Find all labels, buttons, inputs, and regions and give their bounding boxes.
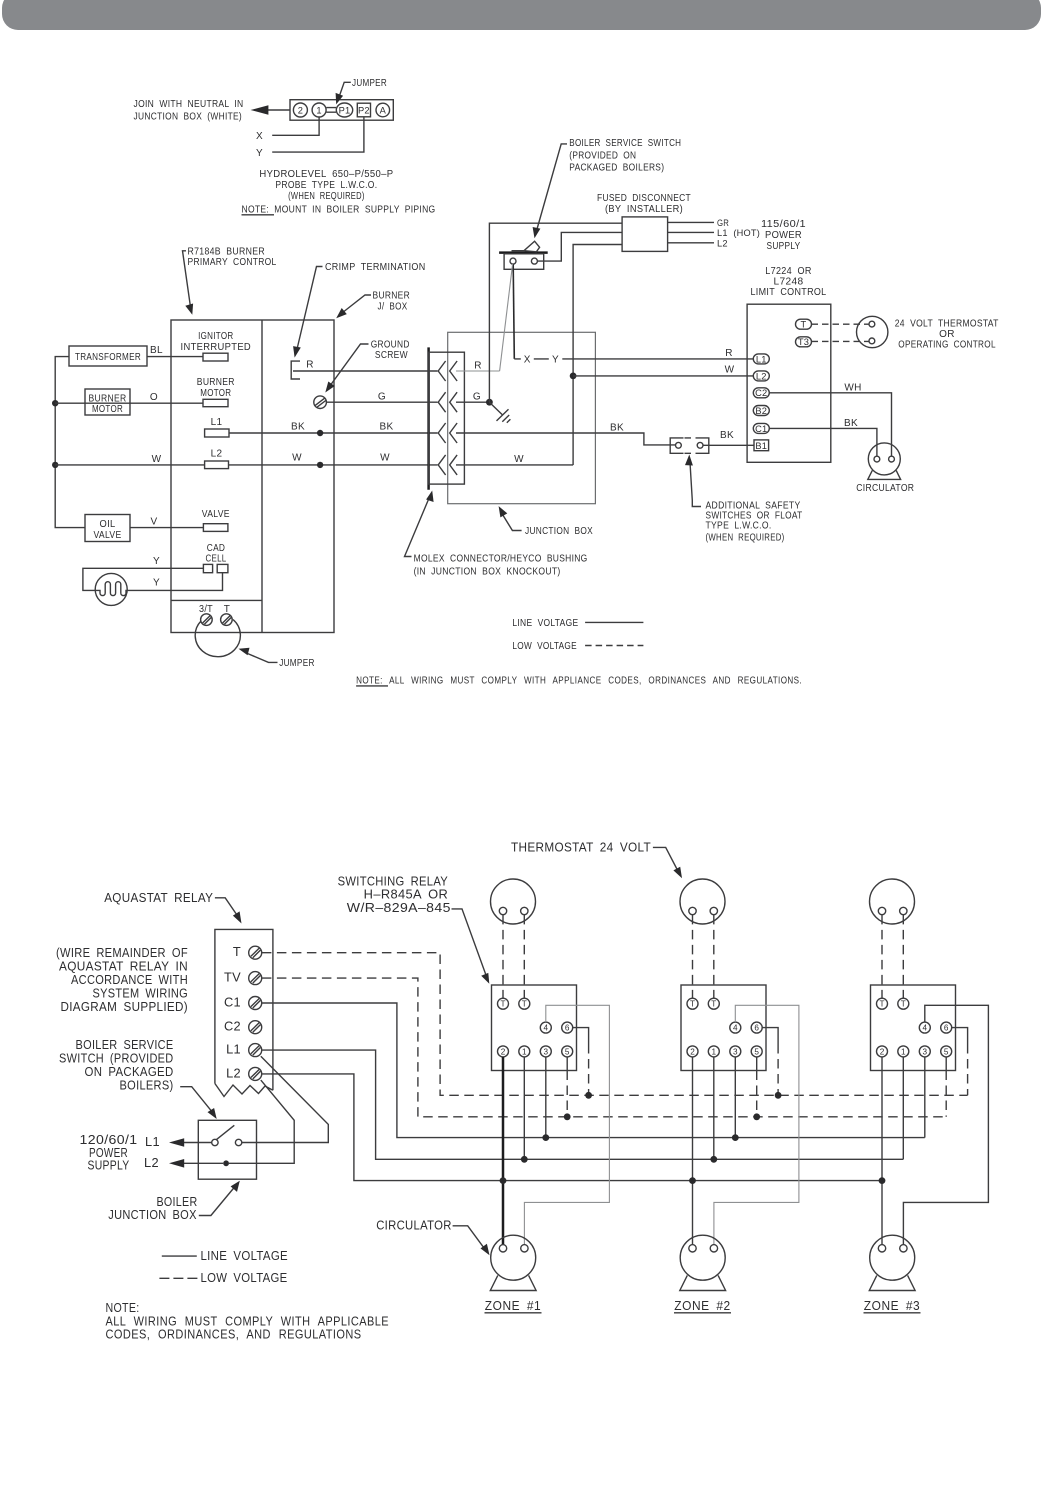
cad cell contact right [217, 564, 228, 572]
wire relay3-5 [945, 1057, 947, 1071]
control / j-box divider [261, 320, 263, 633]
leader to aquastat relay [215, 898, 237, 916]
svg-text:C2: C2 [224, 1019, 241, 1034]
svg-text:L2: L2 [717, 238, 728, 248]
svg-text:MOTOR: MOTOR [200, 388, 231, 399]
svg-text:W: W [152, 454, 162, 465]
svg-text:POWER: POWER [765, 230, 802, 241]
leader to service switch [537, 144, 567, 231]
leader to circulator [453, 1226, 485, 1250]
svg-text:1: 1 [316, 105, 321, 115]
leader ADDITIONAL SAFETY [690, 459, 701, 507]
svg-text:(WHEN REQUIRED): (WHEN REQUIRED) [288, 191, 365, 202]
svg-text:Y: Y [256, 148, 263, 159]
switch blade [216, 1125, 234, 1139]
svg-text:(WHEN REQUIRED): (WHEN REQUIRED) [706, 533, 785, 544]
chassis ground symbol [497, 409, 511, 423]
svg-text:2: 2 [298, 105, 303, 115]
svg-text:W: W [514, 454, 524, 465]
ground screw [314, 396, 327, 409]
svg-text:WH: WH [844, 383, 861, 394]
wire W from supply to L2 and molex [55, 464, 437, 466]
svg-text:LIMIT CONTROL: LIMIT CONTROL [751, 287, 827, 298]
svg-text:BK: BK [844, 418, 858, 429]
thermostat zone 3 [870, 879, 915, 924]
svg-text:SUPPLY: SUPPLY [88, 1158, 130, 1173]
wire R slant to switch (grey) [500, 264, 513, 371]
wire Y lower [127, 573, 223, 591]
thermostat terminal upper [869, 321, 875, 327]
boiler junction box [198, 1120, 256, 1179]
svg-text:TRANSFORMER: TRANSFORMER [75, 352, 141, 363]
svg-text:B2: B2 [755, 406, 767, 416]
terminal L1 [753, 354, 769, 364]
svg-text:DIAGRAM SUPPLIED): DIAGRAM SUPPLIED) [61, 999, 189, 1014]
wire relay3-1 [902, 1057, 904, 1159]
svg-text:L1 (HOT): L1 (HOT) [717, 228, 760, 238]
terminal T3 [796, 337, 812, 347]
svg-text:SCREW: SCREW [375, 350, 408, 361]
wire switch to fused disconnect L1 [537, 232, 622, 261]
wire L2 supply [176, 1162, 223, 1164]
wire C1 bus [262, 1003, 925, 1138]
svg-text:PRIMARY CONTROL: PRIMARY CONTROL [188, 257, 277, 268]
svg-text:THERMOSTAT 24 VOLT: THERMOSTAT 24 VOLT [511, 839, 651, 854]
wire O burner motor [55, 402, 203, 404]
junction box [448, 332, 596, 503]
svg-text:115/60/1: 115/60/1 [761, 219, 806, 230]
L2 contact [205, 461, 229, 469]
switch blade [512, 241, 540, 252]
svg-text:LINE VOLTAGE: LINE VOLTAGE [201, 1248, 289, 1263]
svg-text:CELL: CELL [206, 553, 227, 564]
svg-text:L7224 OR: L7224 OR [765, 266, 812, 277]
junction dot G/GR [486, 399, 493, 406]
svg-text:MOLEX CONNECTOR/HEYCO BUSHING: MOLEX CONNECTOR/HEYCO BUSHING [414, 554, 588, 565]
wire L1 to service switch [242, 1056, 328, 1142]
leader to control box [183, 251, 191, 307]
burner motor contact [203, 399, 228, 406]
terminal P1 [336, 103, 352, 117]
wire relay1-4 to circulator [524, 1005, 609, 1244]
wire T bus (dashed) [262, 953, 968, 1096]
jumper between 1 and P1 [326, 108, 336, 113]
wire relay3-6 [952, 1028, 968, 1044]
terminal 1 [312, 103, 326, 117]
svg-text:J/ BOX: J/ BOX [378, 302, 408, 313]
svg-text:JUNCTION BOX: JUNCTION BOX [108, 1207, 197, 1222]
svg-text:BURNER: BURNER [373, 291, 411, 302]
ignitor contact [203, 353, 228, 361]
thermostat drops zone 1 [503, 915, 524, 998]
svg-text:TYPE L.W.C.O.: TYPE L.W.C.O. [706, 521, 772, 532]
wire relay2-1 [713, 1057, 715, 1159]
molex chevron BK [438, 423, 457, 443]
wire TV bus (dashed) [262, 978, 946, 1117]
aquastat screw L1 [249, 1044, 262, 1057]
wire relay2-5 [756, 1057, 758, 1071]
svg-text:L1: L1 [211, 417, 223, 428]
dashed T3 to thermostat [812, 340, 869, 342]
svg-text:T3: T3 [798, 337, 809, 347]
svg-text:24 VOLT THERMOSTAT: 24 VOLT THERMOSTAT [895, 318, 999, 329]
junction dot [317, 462, 323, 468]
svg-text:CIRCULATOR: CIRCULATOR [376, 1218, 452, 1233]
svg-text:BK: BK [291, 422, 305, 433]
svg-text:TV: TV [224, 970, 241, 985]
molex connector bar [427, 347, 430, 489]
leader to boiler service switch [180, 1087, 213, 1114]
svg-text:W: W [380, 453, 390, 464]
wire relay2-2 to circulator [692, 1057, 694, 1245]
junction dot [52, 462, 58, 468]
thermostat zone 2 [680, 879, 725, 924]
left supply vertical [55, 357, 85, 528]
svg-text:OR: OR [939, 329, 955, 340]
header grey bar [2, 0, 1041, 30]
svg-text:P1: P1 [339, 105, 351, 115]
switching relay 3 [871, 985, 956, 1071]
arrow to neutral note [254, 109, 290, 111]
svg-text:OIL: OIL [100, 519, 116, 530]
junction dot [52, 400, 58, 406]
wire relay1-5 [566, 1057, 568, 1071]
svg-text:L2: L2 [226, 1065, 241, 1080]
leader to thermostat [653, 847, 678, 871]
svg-text:JUMPER: JUMPER [352, 78, 387, 89]
leader to junction box [501, 512, 522, 531]
wire relay3-4 to circulator [903, 1005, 988, 1244]
leader to boiler junction box [199, 1187, 235, 1216]
svg-text:CODES, ORDINANCES, AND REGULAT: CODES, ORDINANCES, AND REGULATIONS [106, 1327, 362, 1342]
dashed T to thermostat [812, 323, 869, 325]
screw terminal T [221, 614, 233, 626]
thermostat drops zone 3 [882, 915, 903, 998]
svg-text:BK: BK [379, 422, 393, 433]
switching relay 2 [681, 985, 766, 1071]
wire G molex to ground point [456, 401, 489, 403]
wire BL transformer to control [147, 356, 203, 358]
svg-text:L1: L1 [145, 1134, 160, 1149]
svg-text:BK: BK [610, 422, 624, 433]
junction dot L2/W [570, 373, 577, 380]
svg-text:(IN JUNCTION BOX KNOCKOUT): (IN JUNCTION BOX KNOCKOUT) [414, 566, 561, 577]
molex connector body [429, 352, 465, 484]
wire L1 supply [176, 1142, 212, 1144]
thermostat drops zone 2 [693, 915, 714, 998]
wire L1 stub [668, 231, 714, 233]
wire X riser from switch [513, 264, 514, 359]
leader to ground screw [330, 344, 369, 387]
wire WH C2 to circulator [769, 393, 891, 456]
svg-text:JOIN WITH NEUTRAL IN: JOIN WITH NEUTRAL IN [134, 99, 244, 110]
svg-text:G: G [473, 391, 481, 402]
svg-text:X: X [524, 354, 531, 365]
wire BK C1 to circulator [769, 428, 877, 456]
24V thermostat circle [857, 316, 888, 347]
wire G screw to molex [326, 401, 437, 403]
circulator zone 2 [680, 1235, 726, 1290]
svg-text:LOW VOLTAGE: LOW VOLTAGE [512, 641, 577, 652]
boiler service switch plate [499, 251, 548, 254]
switch terminal right [531, 258, 537, 264]
svg-text:R: R [306, 359, 314, 370]
additional safety switch box [670, 438, 709, 453]
svg-text:GR: GR [717, 218, 729, 228]
leader to crimp [297, 267, 323, 351]
svg-text:HYDROLEVEL 650–P/550–P: HYDROLEVEL 650–P/550–P [259, 169, 393, 180]
svg-text:L2: L2 [211, 449, 223, 460]
svg-text:INTERRUPTED: INTERRUPTED [181, 342, 252, 353]
terminal 2 [293, 103, 307, 117]
svg-text:L1: L1 [756, 354, 767, 364]
wire L2 power riser [573, 245, 622, 466]
wire relay1-1 [523, 1057, 525, 1159]
aquastat screw C1 [249, 997, 262, 1010]
safety switch terminal right [697, 442, 703, 448]
svg-text:LINE VOLTAGE: LINE VOLTAGE [512, 618, 578, 629]
svg-text:T: T [801, 320, 807, 330]
svg-text:CIRCULATOR: CIRCULATOR [856, 483, 914, 494]
svg-text:LOW VOLTAGE: LOW VOLTAGE [201, 1270, 288, 1285]
svg-text:CAD: CAD [207, 543, 226, 554]
svg-text:BK: BK [720, 430, 734, 441]
svg-text:G: G [378, 391, 386, 402]
svg-text:V: V [150, 516, 157, 527]
svg-text:NOTE: ALL WIRING MUST COMPLY W: NOTE: ALL WIRING MUST COMPLY WITH APPLIA… [356, 676, 802, 687]
svg-text:X: X [256, 131, 263, 142]
svg-text:JUNCTION BOX: JUNCTION BOX [525, 526, 593, 537]
thermostat zone 1 [491, 879, 536, 924]
svg-text:PACKAGED BOILERS): PACKAGED BOILERS) [569, 162, 664, 173]
thermostat terminal lower [869, 338, 875, 344]
switching relay 1 [492, 985, 577, 1071]
aquastat screw TV [249, 972, 262, 985]
terminal strip divider [171, 599, 262, 601]
switch terminal left [510, 258, 516, 264]
svg-text:T: T [233, 944, 241, 959]
wire X from terminal 1 [272, 117, 319, 135]
screw terminal 3/T [201, 614, 213, 626]
leader to switching relay [452, 909, 487, 977]
switch terminal right [235, 1139, 241, 1145]
molex chevron W [438, 455, 457, 475]
cad cell contact left [203, 564, 212, 572]
svg-text:R: R [474, 361, 482, 372]
svg-text:W/R–829A–845: W/R–829A–845 [347, 900, 451, 915]
circulator (top) [868, 443, 900, 475]
molex chevron G [438, 392, 457, 412]
svg-text:NOTE: MOUNT IN BOILER SUPPLY P: NOTE: MOUNT IN BOILER SUPPLY PIPING [242, 205, 436, 216]
svg-text:AQUASTAT RELAY: AQUASTAT RELAY [104, 890, 213, 905]
aquastat screw T [249, 946, 262, 959]
crimp termination bracket [291, 361, 300, 379]
wire relay2-3 [734, 1057, 736, 1138]
svg-text:PROBE TYPE L.W.C.O.: PROBE TYPE L.W.C.O. [275, 180, 377, 191]
svg-text:L7248: L7248 [774, 277, 804, 288]
boiler service switch body [504, 254, 544, 269]
molex chevron R [438, 361, 457, 381]
probe terminal block (Hydrolevel L.W.C.O.) [290, 100, 393, 121]
svg-text:VALVE: VALVE [202, 509, 230, 520]
wire relay3-3 [924, 1057, 926, 1138]
cad cell sensor [95, 573, 127, 605]
svg-text:C1: C1 [755, 424, 767, 434]
terminal T [796, 319, 812, 329]
wire W molex to L2 riser [456, 464, 573, 466]
svg-text:L2: L2 [756, 371, 767, 381]
leader to jumper [339, 82, 351, 98]
wire relay1-3 [545, 1057, 547, 1138]
svg-text:VALVE: VALVE [94, 530, 122, 541]
wire relay3-2 to circulator [881, 1057, 883, 1245]
svg-text:A: A [380, 105, 387, 115]
terminal B1 [754, 440, 769, 451]
ground lead [489, 402, 502, 414]
svg-text:L2: L2 [144, 1155, 159, 1170]
wire GR stub [668, 221, 714, 223]
burner motor box [85, 389, 130, 415]
wire Y from terminal P2 [272, 117, 364, 152]
wire relay2-4 to circulator [714, 1005, 799, 1244]
svg-text:B1: B1 [755, 441, 767, 451]
limit control box [747, 304, 831, 462]
oil valve box [85, 515, 130, 542]
jumper arc [195, 620, 240, 657]
terminal C1 [753, 423, 769, 433]
wire R crimp to molex [293, 370, 438, 372]
svg-text:C2: C2 [755, 388, 767, 398]
svg-text:L1: L1 [226, 1042, 241, 1057]
wire BK safety to B1 [703, 444, 754, 446]
fused disconnect box [622, 217, 668, 252]
wire R molex to service switch (grey) [456, 370, 500, 372]
svg-text:(BY INSTALLER): (BY INSTALLER) [605, 204, 683, 215]
aquastat screw C2 [249, 1021, 262, 1034]
wire BK molex to safety switch [456, 433, 676, 445]
svg-text:ZONE #1: ZONE #1 [485, 1298, 542, 1313]
L2 terminal dot [223, 1160, 229, 1166]
svg-text:SUPPLY: SUPPLY [767, 241, 801, 252]
wire Y upper [83, 568, 203, 590]
svg-text:OPERATING CONTROL: OPERATING CONTROL [898, 339, 996, 350]
svg-text:JUMPER: JUMPER [279, 658, 315, 669]
svg-text:IGNITOR: IGNITOR [198, 331, 233, 342]
svg-text:MOTOR: MOTOR [92, 404, 123, 415]
wire L1 bus [262, 1050, 903, 1159]
svg-text:BOILERS): BOILERS) [120, 1077, 174, 1092]
svg-text:BOILER SERVICE SWITCH: BOILER SERVICE SWITCH [569, 138, 681, 149]
wire V oil valve [130, 527, 203, 529]
svg-text:W: W [725, 365, 735, 376]
svg-text:FUSED DISCONNECT: FUSED DISCONNECT [597, 193, 691, 204]
valve contact [203, 524, 228, 532]
svg-text:P2: P2 [358, 105, 370, 115]
svg-text:Y: Y [153, 578, 160, 589]
switch terminal left [212, 1139, 218, 1145]
leader to molex [405, 497, 430, 557]
svg-text:Y: Y [552, 354, 559, 365]
terminal B2 [753, 406, 769, 416]
legend LINE VOLTAGE (bottom) [162, 1255, 197, 1257]
svg-text:BL: BL [150, 345, 163, 356]
svg-text:ZONE #2: ZONE #2 [674, 1298, 731, 1313]
svg-text:R7184B BURNER: R7184B BURNER [188, 246, 266, 257]
legend LOW VOLTAGE (bottom) [159, 1277, 197, 1279]
aquastat screw L2 [249, 1067, 262, 1080]
svg-text:JUNCTION BOX (WHITE): JUNCTION BOX (WHITE) [134, 111, 243, 122]
wire relay2-6 [762, 1028, 778, 1044]
svg-text:(PROVIDED ON: (PROVIDED ON [569, 150, 636, 161]
svg-text:C1: C1 [224, 995, 241, 1010]
wire relay1-2 to circulator (thick) [502, 1057, 505, 1245]
svg-text:CRIMP TERMINATION: CRIMP TERMINATION [325, 262, 426, 273]
svg-text:BURNER: BURNER [197, 377, 235, 388]
circulator zone 3 [869, 1235, 915, 1290]
terminal L2 [753, 371, 769, 381]
transformer box [69, 346, 147, 366]
safety switch terminal left [676, 442, 682, 448]
svg-text:W: W [292, 453, 302, 464]
svg-text:Y: Y [153, 556, 160, 567]
circulator zone 1 [490, 1235, 536, 1290]
terminal P2 [357, 103, 370, 117]
terminal C2 [753, 388, 769, 398]
svg-text:ZONE #3: ZONE #3 [864, 1298, 921, 1313]
wire X-Y to limit control [514, 358, 754, 360]
wire relay1-6 [573, 1028, 589, 1044]
wire W to limit control [573, 375, 754, 377]
L1 contact [205, 429, 229, 437]
terminal A [376, 103, 390, 117]
svg-text:O: O [150, 392, 158, 403]
wire L2 bus [262, 1074, 882, 1181]
wire GR riser [489, 223, 622, 402]
svg-text:R: R [725, 348, 733, 359]
junction dot [317, 430, 323, 436]
R7184B primary control box [171, 320, 334, 633]
svg-text:GROUND: GROUND [371, 339, 410, 350]
wire L2 to junction box [229, 1080, 294, 1163]
aquastat relay box [215, 929, 273, 1096]
wire L2 stub [668, 242, 714, 244]
leader to burner j-box [342, 295, 371, 313]
wire BK from L1 to molex [229, 432, 438, 434]
